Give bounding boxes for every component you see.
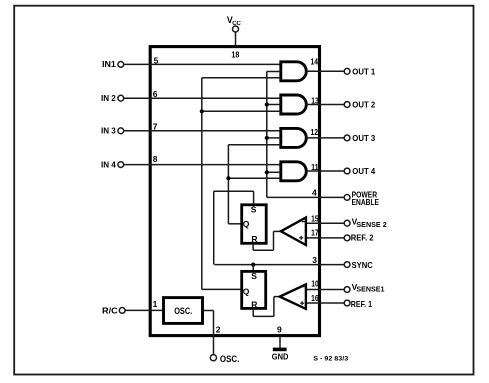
svg-text:OUT 1: OUT 1 xyxy=(352,66,375,76)
svg-text:SENSE1: SENSE1 xyxy=(356,286,384,293)
svg-text:OUT 2: OUT 2 xyxy=(352,100,375,110)
svg-text:Q: Q xyxy=(243,219,250,229)
svg-text:IN1: IN1 xyxy=(102,59,116,69)
svg-text:R: R xyxy=(251,299,257,309)
svg-text:OSC.: OSC. xyxy=(220,354,240,364)
svg-text:5: 5 xyxy=(154,55,159,65)
svg-text:S - 92 83/3: S - 92 83/3 xyxy=(313,355,348,362)
svg-text:IN 4: IN 4 xyxy=(101,159,116,169)
svg-text:OUT 3: OUT 3 xyxy=(352,133,375,143)
svg-text:6: 6 xyxy=(153,89,158,99)
svg-text:10: 10 xyxy=(311,278,319,288)
svg-text:Q: Q xyxy=(243,286,250,296)
svg-text:IN 3: IN 3 xyxy=(101,126,116,136)
svg-text:OUT 4: OUT 4 xyxy=(352,166,375,176)
svg-text:SYNC: SYNC xyxy=(352,260,373,270)
svg-text:S: S xyxy=(251,271,257,281)
svg-text:12: 12 xyxy=(311,127,319,137)
svg-text:18: 18 xyxy=(231,49,239,59)
svg-text:13: 13 xyxy=(311,95,319,105)
svg-text:OSC.: OSC. xyxy=(174,306,192,316)
svg-text:CC: CC xyxy=(232,21,241,27)
svg-text:16: 16 xyxy=(311,293,319,303)
svg-text:ENABLE: ENABLE xyxy=(352,197,380,207)
svg-text:15: 15 xyxy=(311,214,319,224)
svg-text:8: 8 xyxy=(153,154,158,164)
svg-text:S: S xyxy=(251,204,257,214)
svg-text:11: 11 xyxy=(311,162,319,172)
svg-text:2: 2 xyxy=(216,324,221,334)
svg-text:IN 2: IN 2 xyxy=(101,93,116,103)
svg-text:3: 3 xyxy=(312,255,317,265)
svg-text:REF. 2: REF. 2 xyxy=(351,233,374,243)
svg-text:R/C: R/C xyxy=(102,305,118,315)
svg-text:9: 9 xyxy=(277,324,282,334)
svg-text:1: 1 xyxy=(153,299,158,309)
svg-text:4: 4 xyxy=(312,187,317,197)
svg-text:REF. 1: REF. 1 xyxy=(351,299,372,309)
svg-text:R: R xyxy=(251,234,257,244)
svg-text:7: 7 xyxy=(153,121,158,131)
svg-text:14: 14 xyxy=(311,56,319,66)
svg-text:17: 17 xyxy=(311,228,319,238)
svg-text:GND: GND xyxy=(272,352,289,362)
svg-text:SENSE 2: SENSE 2 xyxy=(356,222,386,229)
